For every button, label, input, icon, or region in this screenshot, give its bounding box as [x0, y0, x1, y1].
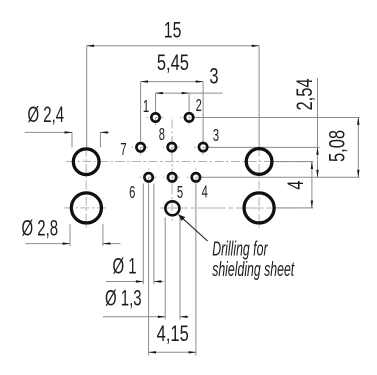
- dimension 5,45: [141, 82, 204, 142]
- svg-text:1: 1: [143, 96, 149, 116]
- shielding sheet hole: [165, 201, 179, 215]
- dimension diameter 1,3: [103, 218, 189, 320]
- wire extension right bottom circle: [275, 207, 313, 209]
- svg-text:6: 6: [129, 182, 135, 202]
- wire extension row1 right: [195, 117, 360, 119]
- dimension 5,08: [357, 118, 359, 178]
- wire extension row3 right: [202, 176, 360, 178]
- svg-text:2: 2: [196, 95, 202, 115]
- pin crosshairs: [132, 108, 213, 186]
- centerline shielding hole to right circle: [160, 207, 313, 209]
- svg-text:shielding sheet: shielding sheet: [212, 258, 295, 281]
- svg-text:Drilling for: Drilling for: [212, 237, 268, 260]
- svg-text:Ø 2,8: Ø 2,8: [22, 215, 59, 240]
- svg-text:7: 7: [120, 139, 126, 159]
- svg-text:3: 3: [213, 125, 219, 145]
- svg-text:4: 4: [202, 182, 208, 202]
- hole circle 2,4 left: [73, 149, 99, 175]
- dimension 3: [156, 93, 223, 112]
- pin 6: [144, 173, 152, 181]
- dimension diameter 2,4: [25, 132, 109, 147]
- svg-text:8: 8: [159, 124, 165, 144]
- centerline left lower circle: [64, 207, 106, 209]
- dimension diameter 2,8: [25, 224, 120, 246]
- pin 2: [185, 113, 193, 121]
- centerline left column vertical: [85, 148, 87, 231]
- leader note arrow: [180, 216, 208, 241]
- svg-text:Ø 2,4: Ø 2,4: [28, 102, 65, 127]
- centerline horizontal main axis: [66, 161, 312, 163]
- svg-text:15: 15: [164, 19, 182, 43]
- hole circle 2,8 right: [244, 193, 274, 223]
- hole circle 2,8 left: [71, 193, 101, 223]
- pin 5: [168, 173, 176, 181]
- svg-text:4: 4: [284, 180, 309, 189]
- dimension 15: [87, 46, 259, 148]
- svg-text:5,45: 5,45: [157, 51, 189, 76]
- pin 1: [151, 113, 159, 121]
- svg-text:Ø 1,3: Ø 1,3: [105, 286, 142, 311]
- svg-text:3: 3: [209, 64, 218, 89]
- dimension 2,54: [317, 78, 319, 177]
- dimension 4,15: [149, 184, 196, 356]
- pin 4: [192, 173, 200, 181]
- svg-text:Ø 1: Ø 1: [113, 253, 137, 278]
- pin 8: [168, 143, 176, 151]
- dimension diameter 1: [106, 184, 164, 285]
- svg-text:2,54: 2,54: [293, 78, 318, 110]
- dimension 4 vertical: [311, 162, 313, 208]
- svg-text:5,08: 5,08: [325, 130, 350, 162]
- wire extension right top circle: [273, 161, 314, 163]
- svg-text:4,15: 4,15: [157, 322, 189, 347]
- hole circle 2,4 right: [246, 149, 272, 175]
- pin 7: [136, 143, 144, 151]
- wire extension row2 right: [209, 146, 320, 148]
- pin 3: [199, 143, 207, 151]
- centerline right column vertical: [258, 148, 260, 230]
- centerline middle column vertical: [171, 120, 173, 222]
- svg-text:5: 5: [177, 182, 183, 202]
